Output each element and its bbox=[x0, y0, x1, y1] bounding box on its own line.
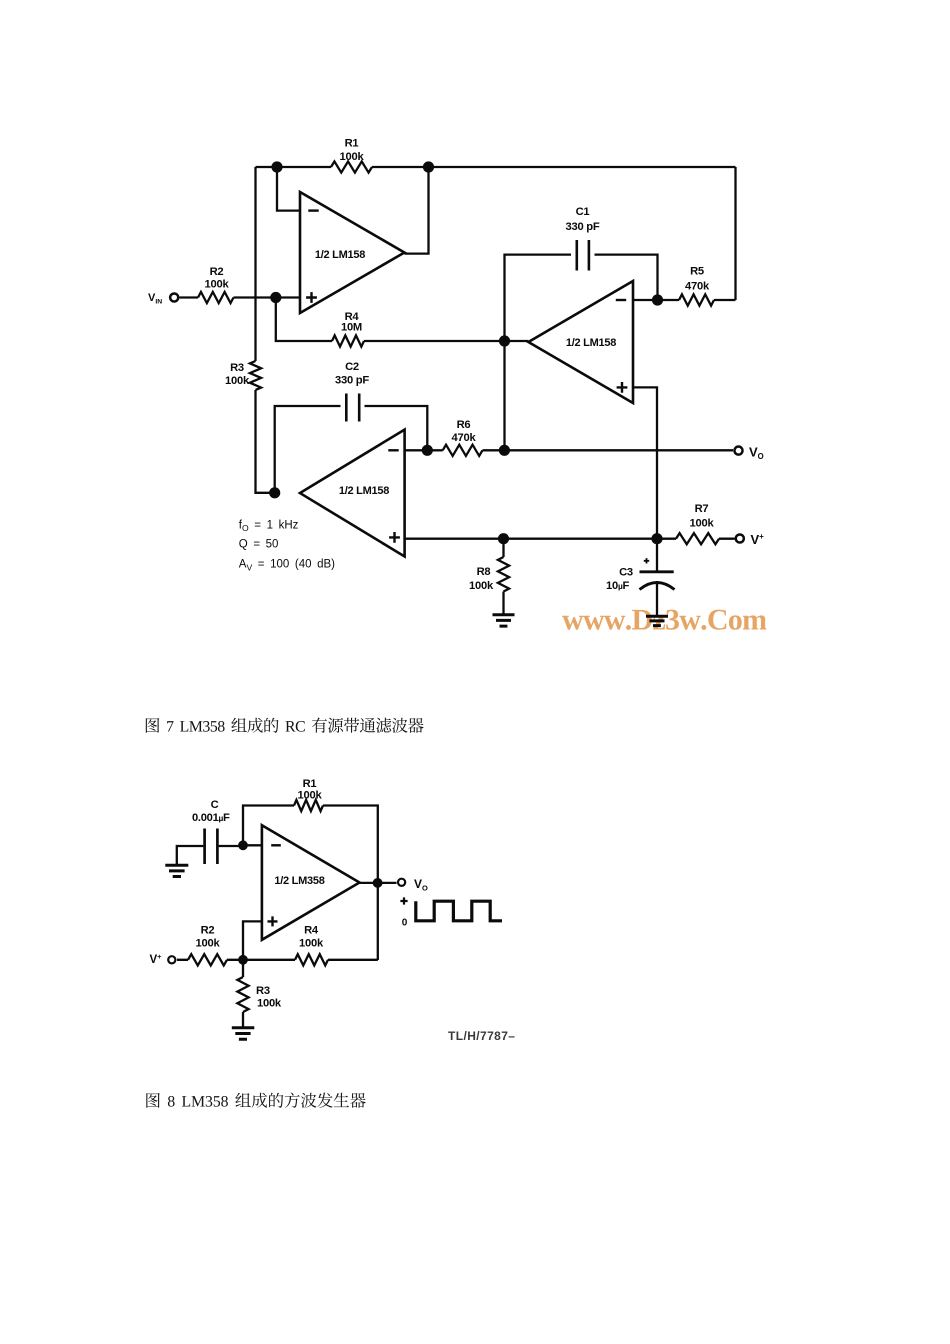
svg-text:R2: R2 bbox=[201, 925, 215, 937]
wire op-amp U1 output to top net bbox=[404, 167, 428, 254]
wire left rail bbox=[256, 167, 275, 493]
resistor R4 (fig8) bbox=[295, 954, 328, 965]
wire VO output bbox=[504, 449, 733, 451]
wire C1 net and left vertical bbox=[505, 255, 658, 451]
wire right vertical to R5 bbox=[734, 167, 736, 300]
wire U4 + input bbox=[243, 921, 263, 959]
node VO terminal (fig8) bbox=[398, 879, 405, 886]
wire VIN to U1 + input bbox=[180, 296, 301, 298]
wire U3 inverting input bbox=[405, 449, 428, 451]
svg-text:10M: 10M bbox=[341, 322, 362, 334]
node junction VIN/R4 bbox=[270, 292, 281, 303]
svg-text:VO: VO bbox=[749, 445, 764, 462]
op-amp U3 1/2 LM158 bbox=[300, 430, 405, 557]
ground R3 (fig8) bbox=[232, 1028, 255, 1039]
squarewave symbol bbox=[400, 897, 407, 904]
svg-text:100k: 100k bbox=[340, 151, 365, 163]
node junction C2/R6 bbox=[422, 445, 433, 456]
wire U1 inverting input bbox=[277, 167, 300, 211]
wire top feedback net bbox=[256, 166, 736, 168]
caption figure 8 bbox=[146, 1093, 365, 1108]
ground C (fig8) bbox=[165, 865, 188, 876]
resistor R4 bbox=[332, 335, 364, 346]
svg-text:100k: 100k bbox=[205, 279, 230, 291]
svg-text:TL/H/7787–: TL/H/7787– bbox=[448, 1029, 515, 1043]
wire U2 inverting input to R5 node bbox=[633, 299, 658, 301]
svg-text:100k: 100k bbox=[690, 518, 715, 530]
caption figure 7 bbox=[146, 718, 424, 733]
svg-text:R5: R5 bbox=[690, 265, 704, 277]
svg-text:C1: C1 bbox=[576, 206, 590, 218]
resistor R1 bbox=[331, 161, 372, 172]
svg-text:R4: R4 bbox=[304, 925, 319, 937]
resistor R2 (fig8) bbox=[188, 954, 227, 965]
svg-text:100k: 100k bbox=[299, 938, 324, 950]
svg-text:R2: R2 bbox=[210, 266, 224, 278]
wire fig8 R1 feedback net bbox=[243, 806, 378, 961]
svg-text:100k: 100k bbox=[225, 375, 250, 387]
resistor R3 (fig8) bbox=[242, 960, 244, 1027]
node V+ terminal (fig8) bbox=[168, 956, 175, 963]
svg-text:C3: C3 bbox=[619, 567, 633, 579]
op-amp U2 1/2 LM158 bbox=[528, 281, 633, 403]
resistor R2 bbox=[198, 292, 234, 303]
wire U4 inverting input bbox=[243, 844, 263, 846]
resistor R3 bbox=[250, 361, 261, 390]
node junction C/R1 bbox=[238, 840, 248, 850]
resistor R5 bbox=[658, 299, 736, 301]
svg-text:V+: V+ bbox=[751, 532, 765, 547]
svg-text:R7: R7 bbox=[695, 503, 709, 515]
svg-text:1/2 LM158: 1/2 LM158 bbox=[315, 249, 365, 261]
svg-text:0: 0 bbox=[402, 918, 408, 929]
wire bottom net V+ bbox=[177, 959, 378, 961]
op-amp U1 1/2 LM158 bbox=[300, 192, 404, 313]
op-amp U4 1/2 LM358 bbox=[262, 825, 360, 940]
node junction C3/R7 bbox=[651, 533, 662, 544]
capacitor C3 bbox=[656, 539, 658, 572]
svg-text:100k: 100k bbox=[257, 998, 282, 1010]
svg-text:1/2 LM158: 1/2 LM158 bbox=[566, 337, 616, 349]
svg-text:330 pF: 330 pF bbox=[335, 375, 369, 387]
svg-text:VO: VO bbox=[414, 877, 428, 893]
svg-text:C2: C2 bbox=[345, 361, 359, 373]
resistor R6 bbox=[427, 449, 504, 451]
ground C3 bbox=[646, 616, 668, 625]
svg-text:VIN: VIN bbox=[148, 292, 162, 306]
node junction R1 right bbox=[423, 161, 434, 172]
svg-text:Q = 50: Q = 50 bbox=[239, 538, 279, 550]
node junction C1/R5 bbox=[652, 294, 663, 305]
svg-text:R6: R6 bbox=[457, 419, 471, 431]
node VIN terminal bbox=[170, 293, 178, 301]
node junction C2/U3 apex bbox=[269, 487, 280, 498]
capacitor C (fig8) bbox=[177, 846, 243, 864]
node V+ terminal bbox=[736, 534, 744, 542]
node VO terminal bbox=[734, 447, 742, 455]
svg-text:100k: 100k bbox=[298, 790, 323, 802]
node junction R1 left bbox=[271, 161, 282, 172]
wire U4 output bbox=[360, 882, 397, 884]
svg-text:330 pF: 330 pF bbox=[566, 221, 600, 233]
wire C2 net bbox=[275, 406, 428, 493]
capacitor C2 bbox=[346, 394, 359, 422]
svg-text:470k: 470k bbox=[452, 432, 477, 444]
capacitor C1 bbox=[577, 240, 589, 271]
node junction output bbox=[373, 878, 383, 888]
resistor R8 bbox=[502, 539, 504, 615]
node junction R6/VO bbox=[499, 445, 510, 456]
svg-text:R8: R8 bbox=[477, 566, 491, 578]
resistor R7 bbox=[657, 538, 735, 540]
watermark bbox=[562, 610, 766, 630]
node junction R2/R3/+ bbox=[238, 955, 248, 965]
svg-text:1/2 LM358: 1/2 LM358 bbox=[274, 875, 324, 887]
svg-text:1/2 LM158: 1/2 LM158 bbox=[339, 485, 389, 497]
svg-text:100k: 100k bbox=[469, 580, 494, 592]
svg-text:fO = 1 kHz: fO = 1 kHz bbox=[239, 519, 299, 533]
svg-text:C: C bbox=[211, 799, 219, 811]
node junction R4/U2 apex bbox=[499, 335, 510, 346]
svg-text:AV = 100 (40 dB): AV = 100 (40 dB) bbox=[239, 559, 335, 573]
svg-text:10µF: 10µF bbox=[606, 580, 630, 592]
svg-text:R1: R1 bbox=[345, 138, 359, 150]
svg-text:100k: 100k bbox=[196, 938, 221, 950]
wire R4 branch bbox=[276, 298, 529, 342]
ground R8 bbox=[493, 615, 515, 626]
wire U2 + input down bbox=[633, 387, 657, 538]
svg-text:R3: R3 bbox=[256, 985, 270, 997]
svg-text:0.001µF: 0.001µF bbox=[192, 812, 230, 824]
svg-text:470k: 470k bbox=[685, 281, 710, 293]
resistor R1 (fig8) bbox=[294, 800, 323, 811]
svg-text:R1: R1 bbox=[303, 778, 317, 790]
svg-text:V+: V+ bbox=[150, 952, 163, 966]
node junction R8 bbox=[498, 533, 509, 544]
wire U3 + input net bbox=[405, 538, 657, 540]
svg-text:R3: R3 bbox=[230, 362, 244, 374]
